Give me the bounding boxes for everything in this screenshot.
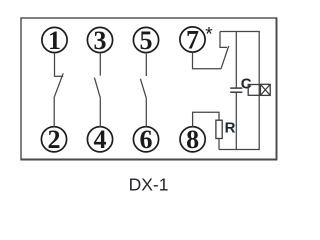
svg-text:R: R xyxy=(225,120,236,137)
terminal 7 xyxy=(180,27,205,52)
svg-text:4: 4 xyxy=(94,125,107,154)
svg-text:2: 2 xyxy=(48,125,61,154)
wire from terminal 1 down xyxy=(54,53,56,77)
wire from terminal 8 up and right to resistor xyxy=(193,112,219,127)
capacitor branch wire lower xyxy=(235,92,237,149)
wire to terminal 6 xyxy=(145,99,147,127)
wire to terminal 4 xyxy=(99,98,101,127)
terminal 3 xyxy=(87,27,112,52)
svg-text:5: 5 xyxy=(140,26,153,55)
contact K5-6 blade xyxy=(140,79,146,99)
resistor R xyxy=(216,120,222,138)
outer border frame xyxy=(21,18,277,160)
terminal 4 xyxy=(87,127,112,152)
capacitor branch wire upper xyxy=(235,32,237,89)
contact K3-4 blade xyxy=(94,78,100,99)
svg-text:*: * xyxy=(205,24,213,45)
contact K1-2 blade xyxy=(54,73,63,97)
terminal 5 xyxy=(133,27,158,52)
flag indicator X box xyxy=(260,84,270,95)
contact K1-2 fixed arm xyxy=(54,75,63,77)
flag indicator left box xyxy=(248,85,260,96)
svg-text:7: 7 xyxy=(186,25,199,54)
svg-text:8: 8 xyxy=(186,125,199,154)
svg-text:3: 3 xyxy=(94,26,107,55)
contact K7 blade xyxy=(221,46,229,69)
wire below resistor xyxy=(218,139,220,150)
bottom rail node xyxy=(219,149,260,151)
terminal 1 xyxy=(42,27,67,52)
wire from terminal 5 down xyxy=(145,53,147,76)
wire from terminal 3 down xyxy=(99,53,101,76)
terminal 2 xyxy=(41,127,66,152)
capacitor C plates xyxy=(230,87,242,89)
right branch wire through flag indicator xyxy=(258,32,260,150)
terminal 8 xyxy=(180,127,205,152)
top rail node xyxy=(220,31,260,33)
svg-text:C: C xyxy=(241,75,252,92)
svg-text:DX-1: DX-1 xyxy=(129,175,169,195)
contact K7 fixed arm from top rail xyxy=(220,32,227,48)
wire to terminal 2 xyxy=(53,97,55,127)
svg-text:1: 1 xyxy=(48,26,61,55)
wire from terminal 7 down and right xyxy=(193,52,222,69)
terminal 6 xyxy=(133,127,158,152)
svg-text:6: 6 xyxy=(140,125,153,154)
